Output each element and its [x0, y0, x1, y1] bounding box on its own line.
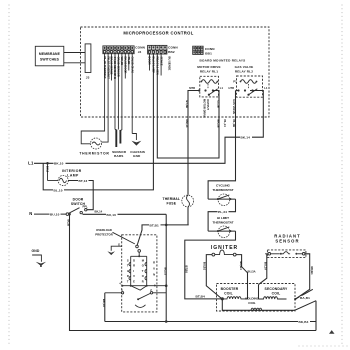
svg-text:DOOR: DOOR	[73, 198, 84, 202]
svg-text:BR,1B SENSE: BR,1B SENSE	[110, 57, 114, 75]
wire membrane to J3 upper	[64, 52, 85, 54]
node N/door junction	[68, 213, 71, 216]
connector J4	[103, 46, 134, 54]
wire door switch output to motor return	[83, 213, 167, 215]
svg-text:L1,1B: L1,1B	[217, 101, 221, 108]
J4 pin 9 wire to chassis ground	[131, 53, 133, 133]
svg-text:BOARD MOUNTED RELAYS: BOARD MOUNTED RELAYS	[200, 59, 246, 63]
svg-text:GND: GND	[133, 154, 141, 158]
svg-text:GAS VALVE: GAS VALVE	[235, 65, 254, 69]
node fuse line / motor return crossing	[165, 224, 168, 227]
svg-text:THERMISTOR: THERMISTOR	[79, 152, 109, 156]
wire thermal fuse to overload protector	[137, 225, 189, 245]
svg-text:GND: GND	[32, 249, 40, 253]
svg-text:P1: P1	[233, 79, 237, 83]
svg-text:L1: L1	[264, 86, 268, 90]
node secondary/sensor junction	[294, 298, 296, 300]
wire secondary to sensor right leg	[295, 289, 312, 299]
svg-text:MTR: MTR	[189, 86, 195, 90]
svg-text:GAS VALVE: GAS VALVE	[232, 99, 236, 114]
scan artifact dots bottom right	[299, 345, 349, 347]
svg-text:BB1: BB1	[205, 51, 212, 55]
wire N line to door switch	[34, 213, 66, 215]
svg-text:BARS: BARS	[114, 154, 123, 158]
motor M1 (dashed enclosure)	[122, 235, 157, 312]
microprocessor control board U1 (dashed enclosure)	[81, 27, 270, 117]
svg-text:L1: L1	[220, 86, 224, 90]
wire igniter left leg	[206, 255, 221, 299]
wire holding coil riser	[258, 285, 260, 299]
svg-text:PL,34: PL,34	[218, 210, 227, 214]
wire label BK,14 (relay jumper)	[240, 135, 252, 139]
motor winding top rail	[131, 255, 147, 257]
wire N return bus (left vertical + bottom rail 2)	[70, 214, 317, 330]
wire RL2 load to cycling thermostat	[208, 91, 235, 200]
motor start winding	[129, 256, 131, 285]
relay RL1 coil	[201, 80, 217, 84]
svg-text:BK,B4: BK,B4	[299, 320, 309, 324]
svg-text:GN,1B CHAS: GN,1B CHAS	[130, 57, 134, 74]
connector BB2	[148, 45, 167, 54]
J4 pin 2 wire to thermistor right	[101, 53, 108, 142]
wire L1 rail to relay RL2 supply	[34, 91, 263, 164]
relay RL2 coil	[241, 80, 257, 84]
node motor return / rail junction	[165, 320, 168, 323]
J4 pin 3 wire stub	[111, 53, 113, 80]
svg-text:MICROPROCESSOR CONTROL: MICROPROCESSOR CONTROL	[123, 31, 193, 36]
svg-text:PL,1B THERMIST: PL,1B THERMIST	[103, 57, 107, 79]
wire lamp feed	[47, 163, 49, 180]
svg-text:BA,B1: BA,B1	[300, 296, 310, 300]
J4 pin 6 wire to sensor bar right	[121, 53, 123, 130]
svg-text:BL,10: BL,10	[54, 188, 63, 192]
svg-text:BT,13: BT,13	[79, 179, 88, 183]
svg-text:SENSOR: SENSOR	[275, 238, 299, 243]
svg-text:BK,1B DOOR: BK,1B DOOR	[124, 57, 128, 74]
svg-text:SECONDARY: SECONDARY	[265, 287, 288, 291]
connector BB1	[193, 46, 203, 54]
svg-text:GY,1B SENSOR B: GY,1B SENSOR B	[113, 57, 117, 80]
svg-text:DOOR: DOOR	[148, 57, 152, 65]
node booster junction	[221, 297, 224, 300]
svg-text:IGNITER: IGNITER	[211, 245, 238, 251]
svg-text:BU,10: BU,10	[107, 213, 117, 217]
svg-text:HI LIMIT: HI LIMIT	[217, 216, 229, 220]
svg-text:RELAY RL1: RELAY RL1	[200, 69, 218, 73]
wire RL1 load (motor drive output) to thermal fuse	[188, 91, 199, 225]
wire cycling to hi-limit	[208, 199, 235, 231]
J4 pin 7 wire stub	[124, 53, 126, 78]
wire gas valve return rail	[222, 299, 316, 310]
wire motor hot lead down	[104, 293, 106, 322]
svg-text:THERMOSTAT: THERMOSTAT	[212, 220, 233, 224]
wire bottom rail 1	[105, 321, 316, 323]
svg-text:BK,14: BK,14	[241, 136, 251, 140]
svg-text:OR,1B SENSOR: OR,1B SENSOR	[117, 57, 121, 77]
svg-text:COIL: COIL	[224, 292, 233, 296]
wire lamp line left	[48, 180, 59, 182]
svg-text:PL,1B: PL,1B	[232, 120, 236, 128]
wire motor return (door switch net) vertical	[165, 214, 167, 321]
thermistor RT1	[91, 138, 102, 149]
svg-text:MR,14: MR,14	[185, 120, 189, 128]
svg-text:FUSE: FUSE	[166, 202, 176, 206]
svg-text:BK,1A: BK,1A	[102, 299, 106, 307]
relay RL1 contacts	[198, 89, 200, 91]
svg-text:BK,14: BK,14	[95, 210, 103, 214]
svg-text:COIL: COIL	[272, 292, 281, 296]
J4 pin 5 wire to sensor bar mid	[117, 53, 119, 129]
svg-text:BU SENSE: BU SENSE	[168, 57, 172, 71]
svg-text:OUTPUT: OUTPUT	[206, 99, 210, 110]
chassis ground symbol (top)	[132, 134, 136, 141]
svg-text:BK,8: BK,8	[46, 166, 50, 173]
wire winding common line	[122, 285, 166, 287]
scan artifact mark bottom right	[329, 330, 335, 334]
svg-text:RD,1C L1 SEN: RD,1C L1 SEN	[156, 57, 160, 75]
scan artifact dotted column left	[8, 5, 10, 347]
relay RL2 contacts	[237, 89, 239, 91]
svg-text:PROTECTOR: PROTECTOR	[95, 233, 113, 237]
wire right return riser	[315, 301, 317, 331]
svg-text:PL,14: PL,14	[223, 120, 227, 128]
BB2 pin1 wire stub	[149, 54, 151, 71]
svg-text:N: N	[29, 211, 32, 216]
svg-text:MEMBRANE: MEMBRANE	[39, 52, 61, 56]
svg-text:HOLDING: HOLDING	[245, 296, 260, 300]
svg-text:WH,1B: WH,1B	[120, 57, 124, 66]
gas valve assembly (dashed enclosure)	[217, 284, 296, 312]
node junction L1/lamp	[46, 162, 49, 165]
svg-text:TN,1B: TN,1B	[127, 57, 131, 65]
svg-text:J3: J3	[86, 76, 90, 80]
svg-text:BB2: BB2	[168, 50, 175, 54]
svg-text:BU,1C LAMP: BU,1C LAMP	[152, 57, 156, 74]
BB2 pin4 wire stub	[160, 54, 162, 76]
thermal fuse F1	[182, 195, 194, 207]
J4 pin 4 wire to sensor bar left	[114, 53, 116, 129]
svg-text:OVERLOAD: OVERLOAD	[96, 228, 112, 232]
J4 pin 8 wire stub	[128, 53, 130, 70]
sensor bars E1	[115, 130, 122, 148]
connector J3	[85, 44, 91, 73]
svg-text:RELAY RL2: RELAY RL2	[235, 69, 253, 73]
svg-text:BU,10: BU,10	[50, 213, 60, 217]
membrane switches SW1	[35, 46, 64, 66]
wire igniter right leg	[236, 255, 247, 299]
node run winding / motor return junction	[165, 284, 168, 287]
svg-text:BU,B4: BU,B4	[239, 262, 243, 271]
svg-text:CYCLING: CYCLING	[216, 183, 231, 187]
svg-text:RD,B1: RD,B1	[310, 267, 314, 276]
svg-text:BT,B4: BT,B4	[196, 295, 205, 299]
svg-text:BK,1B: BK,1B	[217, 120, 221, 128]
svg-text:INTERIOR: INTERIOR	[62, 169, 82, 173]
wire board L1 sense / relay RL1 supply (BB2 pin3)	[157, 54, 219, 158]
svg-text:BU,1A: BU,1A	[264, 262, 268, 270]
svg-text:COIL: COIL	[248, 301, 256, 305]
wire lamp output to door switch lamp contact	[68, 181, 93, 210]
svg-text:BU,15: BU,15	[163, 268, 167, 276]
svg-text:SENSE: SENSE	[159, 57, 163, 66]
motor run winding	[145, 256, 147, 285]
svg-text:BT,3B: BT,3B	[185, 101, 189, 109]
wire sensor left leg to holding coil	[259, 254, 267, 285]
svg-text:G: G	[118, 242, 120, 246]
svg-text:BT,B1: BT,B1	[150, 223, 159, 227]
wire board lamp-control line (BB2 pin2)	[43, 54, 153, 190]
svg-text:CONN: CONN	[135, 46, 145, 50]
node winding common	[138, 255, 140, 257]
svg-text:THERMAL: THERMAL	[162, 197, 180, 201]
wire label BK,10	[54, 161, 66, 165]
svg-text:BT,B5: BT,B5	[185, 266, 189, 274]
J4 pin 1 wire to thermistor left	[81, 53, 104, 144]
svg-text:BU,3A: BU,3A	[248, 270, 256, 274]
wire membrane to J3 lower	[64, 62, 85, 64]
svg-text:HTR: HTR	[229, 86, 235, 90]
svg-text:MOTOR DRIVE: MOTOR DRIVE	[197, 65, 220, 69]
svg-text:BK,10: BK,10	[54, 162, 64, 166]
svg-text:MOTOR DRIVE: MOTOR DRIVE	[203, 99, 207, 118]
svg-text:THERMOSTAT: THERMOSTAT	[212, 188, 233, 192]
svg-text:RUN: RUN	[153, 261, 155, 277]
svg-text:BU,B1: BU,B1	[203, 262, 207, 271]
svg-text:PPL: PPL	[83, 205, 89, 209]
svg-text:LAMP: LAMP	[67, 174, 79, 178]
wire hi-limit output loop to booster junction	[185, 231, 236, 299]
terminal door switch lamp contact	[85, 209, 87, 211]
svg-text:BOOSTER: BOOSTER	[221, 287, 239, 291]
scan artifact dotted column right	[341, 5, 343, 347]
svg-text:L1: L1	[28, 161, 34, 166]
wire sensor right leg	[295, 254, 309, 299]
svg-text:BU,B: BU,B	[67, 220, 71, 227]
svg-text:CONN: CONN	[168, 46, 178, 50]
svg-text:J4: J4	[138, 50, 142, 54]
svg-text:SWITCHES: SWITCHES	[40, 57, 60, 61]
